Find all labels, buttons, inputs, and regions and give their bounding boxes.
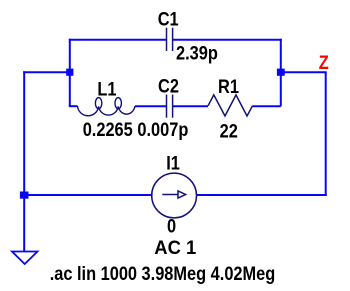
wire top horizontal right of C1 <box>173 39 282 41</box>
ground <box>12 252 38 265</box>
svg-text:C1: C1 <box>158 8 179 29</box>
svg-text:L1: L1 <box>97 78 116 99</box>
svg-text:AC 1: AC 1 <box>154 237 196 258</box>
current source I1 arrow <box>162 191 185 198</box>
current source I1 circle <box>152 173 197 218</box>
wire node Z horizontal <box>281 71 327 73</box>
resistor R1 <box>208 95 253 116</box>
wire between L1 and C2 <box>135 105 166 107</box>
svg-text:C2: C2 <box>158 75 179 96</box>
wire bottom horizontal right of I1 <box>197 194 327 196</box>
svg-text:0: 0 <box>167 215 176 236</box>
wire bottom horizontal left of I1 <box>24 194 152 196</box>
wire middle-row lead left of L1 <box>69 105 78 107</box>
junction node at bottom-left (24,195) <box>20 192 29 199</box>
svg-text:22: 22 <box>220 120 238 141</box>
wire inner-right vertical x=280 <box>280 39 282 107</box>
svg-text:0.007p: 0.007p <box>137 119 188 140</box>
junction node at right-top (280,72) <box>277 69 285 76</box>
svg-text:R1: R1 <box>218 76 239 97</box>
wire top horizontal left of C1 <box>69 39 166 41</box>
svg-text:I1: I1 <box>166 152 180 173</box>
wire between C2 and R1 <box>173 105 208 107</box>
capacitor C1 <box>167 28 173 51</box>
inductor L1 <box>78 98 136 116</box>
capacitor C2 <box>167 95 173 118</box>
wire left rail vertical x=24 <box>23 71 25 251</box>
wire between R1 and inner-right rail <box>253 105 281 107</box>
svg-text:Z: Z <box>319 52 329 73</box>
svg-text:2.39p: 2.39p <box>176 43 218 64</box>
junction node at left-top (69,72) <box>66 69 73 76</box>
wire right rail vertical x=325 <box>325 72 327 196</box>
wire left horizontal y=72 <box>23 71 70 73</box>
svg-text:0.2265: 0.2265 <box>83 119 133 140</box>
svg-text:.ac lin 1000 3.98Meg 4.02Meg: .ac lin 1000 3.98Meg 4.02Meg <box>50 263 276 284</box>
wire top-left vertical (inner-left rail x=69) <box>69 39 71 107</box>
